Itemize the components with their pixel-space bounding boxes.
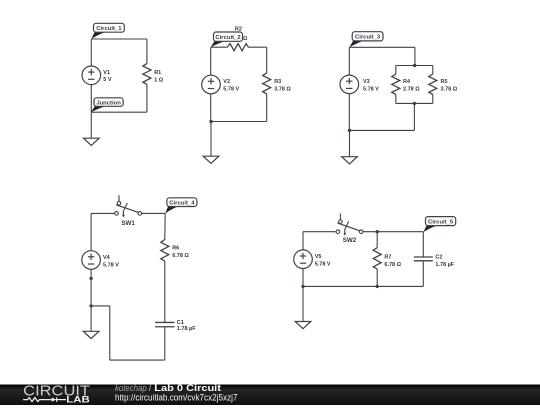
svg-text:5 V: 5 V bbox=[103, 77, 112, 83]
svg-text:5.78 V: 5.78 V bbox=[223, 86, 239, 92]
svg-text:6.78 Ω: 6.78 Ω bbox=[172, 253, 189, 259]
svg-text:SW2: SW2 bbox=[343, 237, 357, 244]
svg-text:C1: C1 bbox=[177, 320, 184, 326]
svg-text:5.78 V: 5.78 V bbox=[315, 262, 331, 268]
svg-text:Junction: Junction bbox=[96, 100, 121, 106]
svg-text:C2: C2 bbox=[435, 254, 442, 260]
svg-text:R4: R4 bbox=[403, 79, 411, 85]
svg-text:6.78 Ω: 6.78 Ω bbox=[384, 262, 401, 268]
svg-text:R1: R1 bbox=[154, 70, 161, 76]
svg-text:Circuit_5: Circuit_5 bbox=[428, 219, 454, 225]
svg-text:V1: V1 bbox=[103, 70, 110, 76]
svg-text:LAB: LAB bbox=[66, 394, 90, 404]
svg-text:2.78 Ω: 2.78 Ω bbox=[403, 86, 420, 92]
svg-text:R7: R7 bbox=[384, 254, 391, 260]
svg-text:http://circuitlab.com/cvk7cx2j: http://circuitlab.com/cvk7cx2j5xzj7 bbox=[115, 392, 238, 402]
svg-text:V4: V4 bbox=[103, 255, 111, 261]
svg-text:V5: V5 bbox=[315, 254, 322, 260]
svg-text:Circuit_2: Circuit_2 bbox=[215, 35, 241, 41]
svg-text:R5: R5 bbox=[441, 79, 448, 85]
svg-text:Circuit_3: Circuit_3 bbox=[355, 35, 381, 41]
svg-text:1.78 µF: 1.78 µF bbox=[177, 326, 196, 332]
svg-text:1 Ω: 1 Ω bbox=[154, 77, 164, 83]
svg-text:R3: R3 bbox=[274, 79, 281, 85]
svg-text:Circuit_4: Circuit_4 bbox=[169, 200, 195, 206]
svg-text:3.78 Ω: 3.78 Ω bbox=[441, 86, 458, 92]
svg-text:R6: R6 bbox=[172, 245, 179, 251]
svg-text:1.78 µF: 1.78 µF bbox=[435, 262, 454, 268]
svg-text:5.78 V: 5.78 V bbox=[363, 86, 379, 92]
svg-text:5.78 V: 5.78 V bbox=[103, 262, 119, 268]
svg-text:V3: V3 bbox=[363, 79, 370, 85]
svg-text:V2: V2 bbox=[223, 79, 230, 85]
svg-text:Circuit_1: Circuit_1 bbox=[96, 26, 122, 32]
svg-text:SW1: SW1 bbox=[121, 220, 135, 227]
svg-text:kotechap/Lab 0 Circuit: kotechap/Lab 0 Circuit bbox=[115, 383, 221, 393]
svg-text:3.78 Ω: 3.78 Ω bbox=[274, 86, 291, 92]
